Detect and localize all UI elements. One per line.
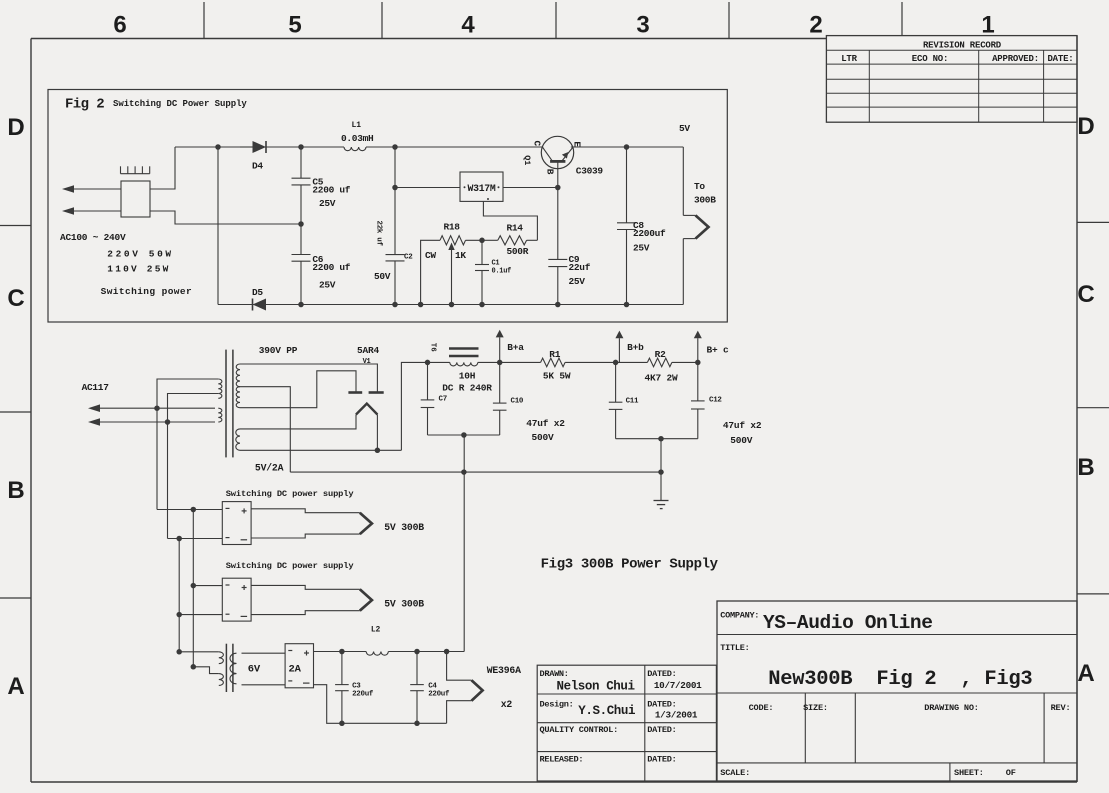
svg-text:25V: 25V (319, 198, 336, 209)
svg-text:Fig 2: Fig 2 (65, 97, 104, 113)
svg-text:B: B (544, 169, 555, 175)
svg-text:SCALE:: SCALE: (720, 768, 750, 778)
svg-text:50V: 50V (374, 271, 391, 282)
svg-text:DATED:: DATED: (647, 754, 676, 764)
svg-text:2A: 2A (289, 664, 302, 676)
svg-text:CODE:: CODE: (749, 703, 774, 713)
svg-text:R1: R1 (549, 349, 561, 360)
svg-text:x2: x2 (501, 699, 513, 710)
svg-text:Switching DC Power Supply: Switching DC Power Supply (113, 99, 247, 109)
svg-text:L2: L2 (371, 625, 381, 634)
svg-text:DATED:: DATED: (647, 700, 676, 710)
svg-text:C: C (7, 285, 24, 312)
svg-text:R18: R18 (444, 222, 461, 233)
svg-text:OF: OF (1006, 768, 1016, 778)
svg-text:Y.S.Chui: Y.S.Chui (578, 704, 635, 718)
svg-text:22k uf: 22k uf (375, 220, 383, 246)
svg-text:C7: C7 (439, 396, 447, 404)
svg-text:W317M: W317M (468, 183, 496, 194)
svg-text:T6: T6 (429, 343, 437, 353)
svg-text:YS–Audio Online: YS–Audio Online (763, 612, 933, 634)
svg-text:B+ c: B+ c (707, 345, 730, 356)
svg-text:C: C (1077, 281, 1094, 308)
svg-text:25V: 25V (633, 243, 650, 254)
svg-text:B: B (1077, 454, 1094, 481)
svg-text:To: To (694, 181, 705, 192)
svg-text:C11: C11 (626, 398, 639, 406)
svg-text:AC100 ~ 240V: AC100 ~ 240V (60, 232, 126, 243)
svg-text:COMPANY:: COMPANY: (720, 611, 759, 621)
svg-text:3: 3 (636, 12, 649, 39)
svg-text:REVISION RECORD: REVISION RECORD (923, 40, 1002, 50)
svg-text:C: C (532, 140, 543, 146)
svg-text:C10: C10 (511, 398, 524, 406)
svg-text:Design:: Design: (540, 700, 574, 710)
svg-text:B+b: B+b (627, 342, 644, 353)
svg-text:DRAWN:: DRAWN: (540, 669, 569, 679)
svg-text:Switching power: Switching power (101, 286, 193, 297)
svg-text:C4: C4 (428, 683, 437, 691)
svg-text:ECO NO:: ECO NO: (912, 54, 948, 64)
svg-text:REV:: REV: (1051, 703, 1071, 713)
svg-text:New300B Fig 2 , Fig3: New300B Fig 2 , Fig3 (768, 668, 1032, 691)
svg-text:5: 5 (288, 12, 301, 39)
svg-text:0.1uf: 0.1uf (492, 268, 512, 276)
svg-text:47uf x2: 47uf x2 (526, 418, 565, 429)
svg-text:1/3/2001: 1/3/2001 (655, 710, 698, 721)
svg-text:500V: 500V (532, 432, 555, 443)
svg-text:DATED:: DATED: (647, 669, 676, 679)
svg-text:A: A (1077, 660, 1094, 687)
svg-text:E: E (572, 141, 583, 147)
svg-text:Q1: Q1 (522, 155, 532, 165)
svg-text:300B: 300B (694, 195, 716, 206)
svg-text:CW: CW (425, 250, 436, 261)
svg-text:WE396A: WE396A (487, 665, 521, 676)
svg-text:4K7 2W: 4K7 2W (645, 373, 679, 384)
svg-text:L1: L1 (352, 121, 362, 130)
svg-text:2: 2 (809, 12, 822, 39)
svg-text:6V: 6V (248, 664, 261, 676)
svg-text:D: D (7, 114, 24, 141)
svg-text:A: A (7, 673, 24, 700)
svg-text:QUALITY CONTROL:: QUALITY CONTROL: (540, 725, 619, 735)
svg-text:5K 5W: 5K 5W (543, 370, 571, 381)
svg-text:47uf x2: 47uf x2 (723, 420, 762, 431)
svg-text:25V: 25V (569, 276, 586, 287)
svg-text:5V: 5V (679, 123, 690, 134)
svg-text:DC R 240R: DC R 240R (442, 382, 492, 393)
svg-text:5V 300B: 5V 300B (384, 599, 424, 610)
svg-text:220V 50W: 220V 50W (107, 249, 173, 260)
svg-text:500V: 500V (730, 435, 753, 446)
svg-text:220uf: 220uf (428, 690, 450, 698)
svg-text:DATE:: DATE: (1047, 54, 1073, 64)
svg-text:110V 25W: 110V 25W (107, 263, 170, 274)
svg-text:220uf: 220uf (352, 690, 374, 698)
svg-text:Fig3 300B Power Supply: Fig3 300B Power Supply (541, 557, 719, 573)
svg-text:LTR: LTR (841, 54, 857, 64)
svg-text:SHEET:: SHEET: (954, 768, 984, 778)
svg-text:D: D (1077, 113, 1094, 140)
svg-text:500R: 500R (507, 246, 529, 257)
svg-text:DRAWING NO:: DRAWING NO: (924, 703, 979, 713)
svg-text:V1: V1 (363, 358, 371, 366)
svg-text:D4: D4 (252, 161, 263, 172)
svg-text:22uf: 22uf (569, 262, 591, 273)
svg-text:D5: D5 (252, 287, 263, 298)
svg-text:RELEASED:: RELEASED: (540, 754, 584, 764)
svg-text:TITLE:: TITLE: (720, 643, 749, 653)
svg-text:2200uf: 2200uf (633, 228, 666, 239)
svg-text:2200 uf: 2200 uf (312, 262, 350, 273)
svg-text:1K: 1K (455, 250, 466, 261)
svg-text:5AR4: 5AR4 (357, 345, 380, 356)
svg-text:APPROVED:: APPROVED: (992, 54, 1039, 64)
svg-text:DATED:: DATED: (647, 725, 676, 735)
svg-text:2200 uf: 2200 uf (312, 184, 350, 195)
svg-text:10H: 10H (459, 371, 476, 382)
svg-text:6: 6 (113, 12, 126, 39)
svg-text:Switching DC power supply: Switching DC power supply (226, 561, 355, 571)
svg-text:1: 1 (981, 12, 994, 39)
svg-text:B+a: B+a (507, 342, 524, 353)
svg-text:R2: R2 (655, 349, 667, 360)
svg-text:B: B (7, 477, 24, 504)
svg-text:C12: C12 (709, 397, 722, 405)
svg-text:5V 300B: 5V 300B (384, 522, 424, 533)
svg-text:Nelson Chui: Nelson Chui (557, 680, 635, 694)
svg-text:25V: 25V (319, 279, 336, 290)
svg-text:C1: C1 (492, 260, 500, 268)
svg-text:5V/2A: 5V/2A (255, 463, 284, 474)
svg-text:C2: C2 (404, 254, 413, 262)
svg-text:C3: C3 (352, 683, 361, 691)
svg-text:R14: R14 (507, 223, 524, 234)
svg-text:C3039: C3039 (576, 166, 604, 177)
svg-text:4: 4 (461, 12, 475, 39)
svg-text:Switching DC power supply: Switching DC power supply (226, 489, 355, 499)
svg-text:SIZE:: SIZE: (803, 703, 828, 713)
svg-text:0.03mH: 0.03mH (341, 133, 374, 144)
svg-text:10/7/2001: 10/7/2001 (654, 680, 702, 691)
svg-text:AC117: AC117 (82, 382, 110, 393)
svg-text:390V PP: 390V PP (259, 345, 298, 356)
